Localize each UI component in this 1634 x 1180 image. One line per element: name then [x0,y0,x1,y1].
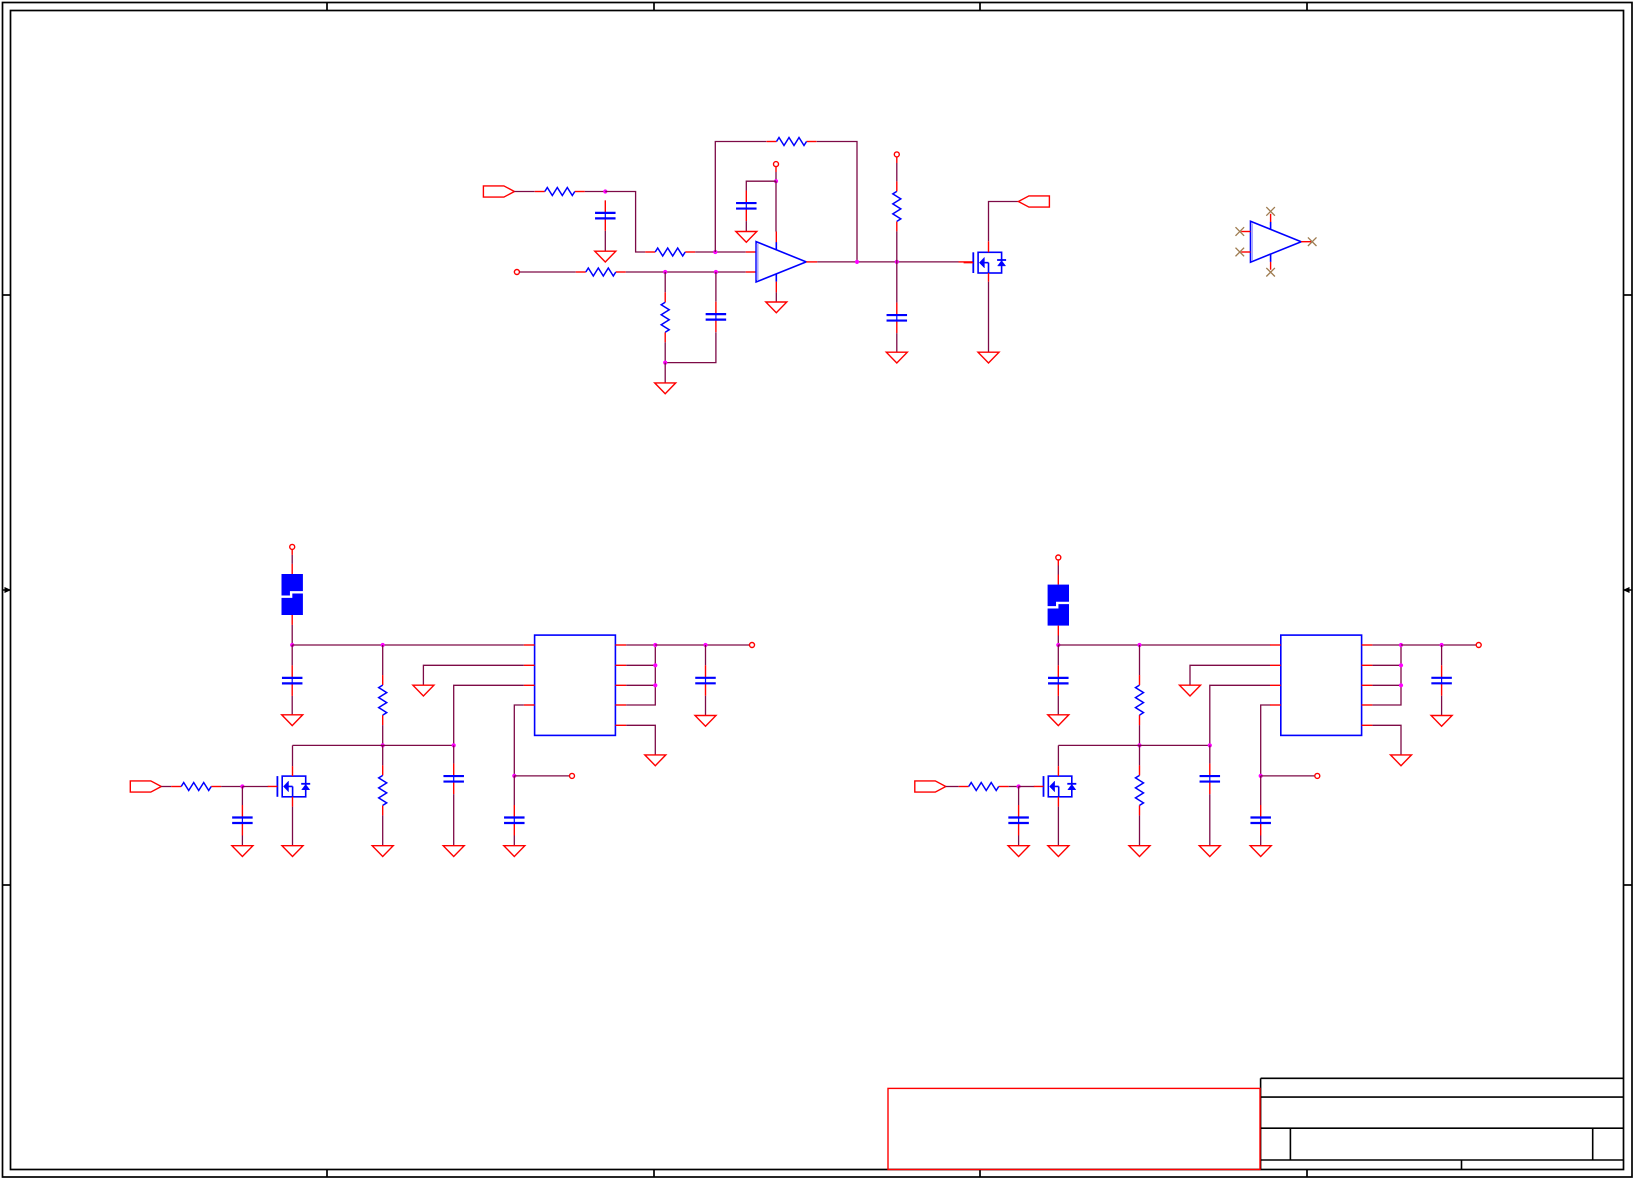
wire output rail to Cout3 [705,645,707,665]
ground under Cdly4 [1250,846,1271,857]
junction -in/R4 [663,270,667,274]
no-connect X on U2 V+ [1266,207,1275,216]
op-amp U2 (unused) [1251,221,1302,262]
U4 left pin 1 [1270,644,1281,646]
U4 left pin 2 [1270,664,1281,666]
ground at U4 pin9 [1391,755,1412,766]
ground under C1 [595,251,616,262]
Q3 source pin [292,797,294,807]
resistor R5 (pull-up) [893,181,901,231]
power terminal T3a [290,544,295,549]
wire gate node to Q3 [242,786,268,788]
tie junction row3 4 [1399,683,1403,687]
capacitor Cfb3 [443,764,464,795]
U3 left pin 2 [524,664,535,666]
tie junction row3 3 [653,683,657,687]
U3 right pin 8 [615,704,626,706]
Q1 source pin [988,273,990,282]
gate node junction 4 [1017,784,1021,788]
capacitor Cout4 [1431,665,1452,696]
wire input rail to Rtop4 [1139,645,1141,675]
wire Cdly3 to ground [513,836,515,846]
wire EN node to terminal [1261,775,1315,777]
wire T1 to R3 [519,271,575,273]
ground under Cin4 [1048,715,1069,726]
junction -in/C2 [714,270,718,274]
capacitor Cin3 [282,665,303,696]
wire gate node to Cen3 [241,787,243,806]
fuse F4 top pin [1057,575,1059,585]
left edge center arrow [3,587,11,592]
wire C2 to node B [665,332,716,362]
wire V+ node to U1 V+ pin [775,181,777,231]
FB rail junction at Cfb 4 [1208,743,1212,747]
output rail junction at Cout 3 [703,643,707,647]
wire Cin4 to ground [1057,696,1059,715]
output tie row3 3 [626,684,655,686]
left edge zone tick 1 [3,294,11,296]
wire input rail to Cin 3 [291,645,293,665]
resistor Rtop3 (divider) [379,675,387,725]
U3 left pin 3 [524,684,535,686]
wire U4 pin9 to ground [1372,725,1401,755]
input rail junction at divider 3 [381,643,385,647]
right edge zone tick 1 [1624,294,1632,296]
top edge zone tick 2 [653,3,655,11]
wire Q1 drain to port P2 [989,202,1019,242]
U3 right pin 6 [615,664,626,666]
left edge zone tick 2 [3,884,11,886]
bottom edge zone tick 3 [979,1170,981,1178]
ground under divider 4 [1129,846,1150,857]
Q4 drain pin [1057,766,1059,776]
capacitor Cin4 [1048,665,1069,696]
right edge zone tick 2 [1624,884,1632,886]
U2 output pin [1301,241,1311,243]
input rail junction at fuse 3 [290,643,294,647]
wire input rail to Cin 4 [1057,645,1059,665]
ground under divider 3 [372,846,393,857]
wire T3 to R5 [896,163,898,181]
ground under Cen4 [1008,846,1029,857]
wire Rtop3 to FB rail [382,725,384,745]
no-connect X on U2 +in [1236,227,1245,236]
resistor R4 [661,292,669,342]
wire R3 to op-amp -in [626,271,746,273]
junction output/feedback [855,260,859,264]
feedback resistor R6 [767,138,817,146]
ground under Cout4 [1431,716,1452,727]
ground under C3 [736,232,757,243]
Q4 source pin [1057,797,1059,807]
wire T4a to fuse F4 [1057,566,1059,575]
output rail wire 3 [655,644,749,646]
ground under node B [655,383,676,394]
V+ terminal T2 [774,162,779,167]
wire Ren4 to gate node [1009,786,1019,788]
mosfet Q1 gate pin wire [959,261,974,263]
wire Rbot3 to ground [382,815,384,845]
mosfet Q1 [964,252,1007,273]
node B junction [663,361,667,365]
ground under Q1 [978,352,999,363]
wire Cout3 to ground [705,696,707,716]
resistor Ren4 [959,783,1009,791]
capacitor Cdly3 [504,805,525,836]
wire R1 to node A [585,191,606,193]
wire FB rail to Cfb4 [1209,745,1211,763]
no-connect X on U2 output [1308,237,1317,246]
IC U4 (regulator) [1281,635,1362,735]
wire Q1 source to ground [988,282,990,353]
wire Ren3 to gate node [221,786,242,788]
port P3 (enable input) [130,781,161,792]
top edge zone tick 3 [979,3,981,11]
wire Q4 source to ground [1057,807,1059,846]
resistor Ren3 [171,783,221,791]
EN node junction 4 [1259,774,1263,778]
feedback wire right segment [817,142,857,262]
wire input rail to Rtop3 [382,645,384,675]
wire FB rail to Rbot3 [382,745,384,765]
top edge zone tick 4 [1306,3,1308,11]
no-connect X on U2 -in [1236,248,1245,257]
op-amp U1 V+ pin inner [775,242,777,250]
op-amp U1 -in pin [746,271,756,273]
U3 right pin 9 [615,724,626,726]
output rail wire 4 [1401,644,1476,646]
input rail junction at fuse 4 [1056,643,1060,647]
feedback wire left segment [715,142,766,253]
U3 left pin 4 [524,704,535,706]
output terminal T3c [750,643,755,648]
U2 -in pin [1241,251,1250,253]
power terminal T4a [1056,555,1061,560]
tie junction row1 4 [1399,643,1403,647]
fuse F3 bottom pin [291,615,293,625]
ground under Cin3 [282,715,303,726]
wire EN node to terminal [514,775,569,777]
resistor Rtop4 (divider) [1136,675,1144,725]
tie junction row2 4 [1399,663,1403,667]
capacitor Cout3 [695,665,716,696]
capacitor C4 [887,303,908,334]
resistor Rbot3 (divider) [379,765,387,815]
EN node junction 3 [512,774,516,778]
EN terminal T3b [570,773,575,778]
U2 V- pin inner [1270,254,1272,262]
output rail junction at Cout 4 [1440,643,1444,647]
EN terminal T4b [1315,773,1320,778]
wire -in node down to R4 [664,272,666,292]
tie junction row1 3 [653,643,657,647]
wire gate node to Q4 [1019,786,1035,788]
wire EN node to Cen2 4 [1260,776,1262,805]
title block [1261,1078,1624,1169]
capacitor Cdly4 [1250,805,1271,836]
U4 right pin 7 [1362,684,1373,686]
U3 right pin 5 [615,644,626,646]
capacitor Cen3 [232,805,253,836]
ground under U1 [766,302,787,313]
U4 right pin 8 [1362,704,1373,706]
wire U4 pin2 to ground [1190,665,1270,685]
capacitor Cen4 [1008,805,1029,836]
capacitor C3 (bypass) [736,191,757,222]
output wire [817,261,958,263]
U4 left pin 3 [1270,684,1281,686]
wire Q3 drain to FB rail [292,745,294,766]
FB rail junction at divider 3 [381,743,385,747]
node A junction [603,189,607,193]
wire output node to C4 [896,262,898,303]
port P1 (input) [483,186,514,197]
op-amp U1 output pin [806,261,817,263]
U2 +in pin [1241,231,1250,233]
bottom edge zone tick 2 [653,1170,655,1178]
U3 left pin 1 [524,644,535,646]
wire fuse F4 to input rail [1057,636,1059,646]
op-amp U1 +in pin [746,251,756,253]
resistor R2 [645,248,695,256]
input rail wire 4 [1058,644,1270,646]
U4 right pin 5 [1362,644,1373,646]
junction feedback/+in [713,250,717,254]
wire Cen4 to ground [1018,836,1020,846]
output tie row3 4 [1372,684,1401,686]
wire node A to R2 [605,192,645,253]
right edge center arrow [1624,587,1632,592]
wire U3 pin4 to EN node [514,705,524,776]
wire FB rail to Cfb3 [453,745,455,763]
wire Cin3 to ground [291,696,293,715]
fuse F4 [1047,585,1069,626]
pull-up terminal T3 [894,152,899,157]
U2 V- pin [1270,262,1272,270]
op-amp U1 V- pin inner [775,274,777,282]
T4a pin [1057,560,1059,566]
wire V+ node to C3 [746,181,776,190]
ground under C4 [886,352,907,363]
U2 V+ pin inner [1270,222,1272,230]
fuse F4 bottom pin [1057,626,1059,636]
T3a pin [291,549,293,555]
capacitor C1 [595,200,616,231]
wire U3 pin2 to ground [423,665,523,685]
wire Q4 drain to FB rail [1057,745,1059,766]
ground under Cfb3 [443,846,464,857]
wire R5 to output node [896,231,898,262]
input rail wire 3 [292,644,524,646]
capacitor C2 [706,302,727,333]
wire R4 to node B [664,342,666,362]
FB rail junction at Cfb 3 [452,743,456,747]
U3 right pin 7 [615,684,626,686]
FB rail wire 4 [1058,744,1209,746]
output terminal T4c [1476,643,1481,648]
port P4 (enable input) [915,781,946,792]
wire T3a to fuse F3 [291,555,293,564]
output tie wire 4 [1372,645,1401,705]
wire U3 pin3 to FB node [454,685,524,745]
IC U3 (regulator) [535,635,616,735]
ground under Q4 [1048,846,1069,857]
output tie row2 4 [1372,664,1401,666]
resistor Rbot4 (divider) [1136,765,1144,815]
wire C3 to ground [745,221,747,231]
ground under Q3 [282,846,303,857]
V+ terminal pin [775,167,777,172]
ground under Cen3 [232,846,253,857]
wire EN node to Cen2 3 [513,776,515,805]
op-amp U1 V+ pin [775,232,777,243]
wire Cout4 to ground [1441,696,1443,716]
top edge zone tick 1 [326,3,328,11]
wire output rail to Cout4 [1441,645,1443,665]
wire U1 V- to ground [775,292,777,302]
fuse F3 top pin [291,564,293,574]
wire node B to ground [664,363,666,383]
mosfet Q4 [1034,776,1077,797]
tie junction row2 3 [653,663,657,667]
wire Rbot4 to ground [1139,815,1141,845]
no-connect X on U2 V- [1266,268,1275,277]
wire gate node to Cen4 [1018,787,1020,806]
wire C1 to ground [604,231,606,251]
wire fuse F3 to input rail [291,625,293,645]
U2 V+ pin [1270,214,1272,222]
ground at U4 pin2 [1180,685,1201,696]
port P2 (output) [1018,196,1049,207]
ground under Cout3 [695,716,716,727]
ground at U3 pin9 [645,755,666,766]
open terminal T1 [514,270,519,275]
Q3 drain pin [292,766,294,776]
wire Cen3 to ground [241,836,243,846]
wire U3 pin9 to ground [626,725,655,755]
wire Cfb3 to ground [453,794,455,846]
wire U4 pin4 to EN node [1261,705,1270,776]
wire Rtop4 to FB rail [1139,725,1141,745]
U4 right pin 9 [1362,724,1373,726]
wire C4 to ground [896,333,898,352]
wire Q3 source to ground [292,807,294,846]
wire port P1 to R1 [514,191,534,193]
U4 right pin 6 [1362,664,1373,666]
revision box outline [888,1088,1260,1169]
wire R2 to op-amp +in [695,251,746,253]
junction output/RC node [895,260,899,264]
wire Cfb4 to ground [1209,794,1211,846]
input rail junction at divider 4 [1137,643,1141,647]
bottom edge zone tick 4 [1306,1170,1308,1178]
capacitor Cfb4 [1200,764,1221,795]
resistor R1 [535,188,585,196]
wire port to Ren3 [161,786,171,788]
bottom edge zone tick 1 [326,1170,328,1178]
fuse F3 [281,574,303,615]
wire U4 pin3 to FB node [1210,685,1270,745]
wire -in node down to C2 [715,272,717,302]
ground under Cfb4 [1199,846,1220,857]
mosfet Q3 [268,776,311,797]
Q1 drain pin [988,241,990,252]
gate node junction 3 [240,784,244,788]
V+ node junction [774,179,778,183]
resistor R3 [576,268,626,276]
FB rail junction at divider 4 [1137,743,1141,747]
ground at U3 pin2 [413,685,434,696]
wire T2 to V+ node [775,172,777,181]
wire port to Ren4 [946,786,959,788]
FB rail wire 3 [293,744,454,746]
U4 left pin 4 [1270,704,1281,706]
ground under Cdly3 [504,846,525,857]
wire Cdly4 to ground [1260,836,1262,846]
output tie row2 3 [626,664,655,666]
op-amp U1 [756,242,806,282]
wire FB rail to Rbot4 [1139,745,1141,765]
output tie wire 3 [626,645,655,705]
T3 pin [896,157,898,163]
op-amp U1 V- pin [775,282,777,293]
